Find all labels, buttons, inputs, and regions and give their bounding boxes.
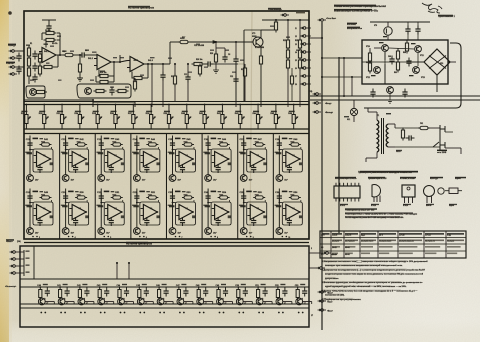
svg-text:К73-17: К73-17 [340, 205, 345, 207]
table header smudge [379, 233, 396, 235]
svg-text:VT11: VT11 [420, 55, 424, 57]
stage link wire [283, 301, 292, 303]
capacitor feedback cell 10 [73, 217, 78, 226]
svg-text:17: 17 [311, 315, 313, 317]
cell output dot [192, 158, 194, 160]
table smudge row2 [345, 240, 358, 242]
svg-text:выпрямителя: выпрямителя [347, 28, 363, 30]
capacitor C6 [79, 52, 88, 57]
capacitor C8 [222, 54, 227, 63]
table column line [343, 231, 345, 258]
svg-text:VT12: VT12 [366, 77, 370, 79]
stage link wire [125, 301, 134, 303]
capacitor feedback cell 6 [216, 164, 221, 173]
capacitor C2 [16, 66, 21, 75]
capacitor series cell 11 [99, 193, 104, 202]
wire feed bus b [93, 101, 135, 103]
svg-text:Приложение 1: Приложение 1 [438, 15, 455, 18]
capacitor series cell 10 [63, 193, 68, 202]
pot label smudge [253, 111, 259, 112]
transistor VT21 [58, 298, 65, 305]
stage link wire [263, 301, 272, 303]
op-amp DA1.2 [94, 55, 111, 70]
capacitor C56 [415, 26, 420, 35]
sheet fold line right [338, 57, 340, 233]
cell label smudge a [175, 138, 181, 140]
transistor cell 3 [98, 175, 105, 182]
caption smudge 4 [426, 204, 434, 205]
cell output dot [50, 158, 52, 160]
transistor cell 9 [27, 228, 34, 235]
cell label smudge a [211, 191, 217, 193]
cell output dot [228, 211, 230, 213]
cell label smudge b [218, 138, 222, 139]
svg-text:VT: VT [126, 303, 128, 305]
cell label smudge a [282, 191, 288, 193]
cell output dot [192, 211, 194, 213]
cell input resistor blob [205, 152, 211, 154]
cell label smudge c [183, 141, 187, 142]
layout note smudge [345, 208, 377, 210]
ground symbol [77, 78, 83, 81]
pot row link line [24, 128, 309, 130]
capacitor series cell 2 [63, 140, 68, 149]
svg-text:«Лин»: «Лин» [327, 302, 332, 304]
stage label smudge [162, 284, 167, 285]
wire junction to loop [137, 202, 140, 204]
wire DA1.1 noninverting input [39, 58, 42, 60]
wire to arrow [190, 41, 213, 43]
wire oval to loop [51, 147, 53, 149]
connector X5 pin 8 [300, 83, 309, 86]
svg-text:Пт. R2 видом Н2 (типы ВлТ С25: Пт. R2 видом Н2 (типы ВлТ С25 заглушка) … [345, 216, 404, 219]
capacitor feedback cell 5 [180, 164, 185, 173]
cell value smudge d [275, 205, 279, 206]
label smudge 220V [437, 150, 447, 152]
cell input resistor blob [276, 152, 282, 154]
resistor R64 [405, 41, 408, 54]
resistor stage 1 [39, 287, 42, 300]
table smudge row4 [425, 253, 436, 255]
svg-text:40: 40 [47, 116, 49, 119]
transistor cell 12 [133, 228, 140, 235]
cell junction dot [29, 202, 31, 204]
connector SA mains [318, 19, 327, 22]
wire box to fold [339, 57, 362, 59]
ink blot top left [8, 11, 12, 15]
table header smudge [345, 233, 358, 235]
transistor cell 2 [62, 175, 69, 182]
cell junction dot [29, 149, 31, 151]
capacitor stage 7 [164, 288, 169, 297]
table smudge row3 [345, 246, 355, 248]
feedback loop cell 12 [140, 202, 160, 225]
wire down to rail [384, 64, 386, 84]
cell label smudge b [253, 191, 257, 192]
svg-text:R63: R63 [394, 72, 397, 74]
cell left rail wire [29, 136, 31, 175]
connector X3 [323, 252, 332, 255]
resistor R25 [298, 38, 301, 51]
wire into DA1.3 [120, 61, 127, 63]
capacitor C13 [233, 76, 238, 85]
capacitor series cell 9 [27, 193, 32, 202]
op-amp DA1.3 [127, 57, 144, 72]
table header smudge [332, 233, 342, 235]
A2 stage 5 [119, 286, 121, 288]
capacitor series cell 15 [241, 193, 246, 202]
resistor MLT cell 8 [289, 143, 301, 146]
capacitor feedback cell 8 [287, 164, 292, 173]
capacitor C10 [160, 72, 165, 81]
svg-text:VT13: VT13 [421, 77, 425, 79]
mains switch SA3 [433, 142, 439, 147]
resistor MLT cell 3 [111, 143, 123, 146]
cell output dot [156, 158, 158, 160]
svg-text:05-08: 05-08 [345, 254, 350, 256]
A2 pin label 4 [26, 272, 30, 273]
stage label smudge [122, 284, 127, 285]
stage link wire [204, 301, 213, 303]
note underline smudge [322, 290, 401, 291]
capacitor series cell 6 [206, 140, 211, 149]
cell output blob [192, 162, 195, 165]
svg-text:10к*: 10к* [142, 180, 146, 182]
lamp wire down [353, 116, 355, 122]
feedback loop cell 14 [211, 202, 231, 225]
cell junction dot [278, 202, 280, 204]
A2 stage 8 [178, 286, 180, 288]
A3 power supply box [362, 40, 448, 84]
op-amp band cell 13 [176, 205, 193, 220]
mains wire lower [395, 146, 440, 148]
svg-text:Примерное расположение выводов: Примерное расположение выводов элементов [358, 172, 412, 174]
wire oval to loop [264, 200, 266, 202]
wire switch to fold [322, 57, 339, 59]
A2 inner bottom line [20, 307, 309, 309]
cell left rail wire [100, 136, 102, 175]
svg-text:C5 220: C5 220 [45, 30, 51, 32]
svg-text:эквалайзера «Электроника Э-08: эквалайзера «Электроника Э-08» [334, 8, 379, 12]
cell left rail wire [207, 189, 209, 228]
wire drop x163 [162, 80, 164, 107]
cell input resistor blob [169, 205, 175, 207]
capacitor series cell 3 [99, 140, 104, 149]
svg-text:10к*: 10к* [177, 180, 181, 182]
wire oval to loop [86, 200, 88, 202]
svg-text:C60: C60 [388, 56, 391, 58]
switch loop SA2 [77, 84, 131, 98]
svg-text:4в 8: 4в 8 [379, 234, 383, 237]
cell label smudge c [148, 194, 152, 195]
wire collector link left [244, 29, 261, 31]
potentiometer R33 slider [60, 111, 66, 127]
resistor MLT cell 15 [253, 196, 265, 199]
loudness switch loop SA1 [26, 86, 45, 98]
svg-text:VT: VT [86, 303, 88, 305]
wire oval to loop [193, 147, 195, 149]
capacitor C5 [46, 23, 51, 32]
mains wire upper [395, 127, 418, 129]
resistor R1 [27, 46, 30, 59]
capacitor stage 3 [84, 288, 89, 297]
wire junction to loop [137, 149, 140, 151]
pickup label smudge [6, 62, 15, 64]
pot label smudge [57, 111, 63, 112]
wire junction to loop [30, 149, 33, 151]
svg-text:17: 17 [295, 76, 297, 78]
cell output blob [121, 215, 124, 218]
wire oval to loop [193, 200, 195, 202]
svg-text:R12: R12 [133, 81, 136, 83]
wire oval to loop [122, 147, 124, 149]
svg-text:10к*: 10к* [35, 180, 39, 182]
res note smudge 1 [345, 212, 413, 213]
svg-text:10к*: 10к* [142, 233, 146, 235]
resistor R6 [44, 31, 57, 34]
feedback network DA1.3 [131, 72, 133, 79]
potentiometer R37 slider [132, 111, 138, 127]
resistor stage 10 [217, 287, 220, 300]
svg-text:VT: VT [66, 303, 68, 305]
svg-text:6: 6 [146, 237, 147, 239]
A2 stage 13 [277, 286, 279, 288]
svg-text:КТ315: КТ315 [371, 205, 376, 207]
wire C11 top [187, 64, 189, 74]
cell junction dot [100, 149, 102, 151]
svg-text:C13: C13 [230, 76, 233, 78]
cell value smudge d [25, 205, 29, 206]
cell left rail wire [136, 136, 138, 175]
ground symbol 2 [213, 70, 219, 73]
A2 stage 10 [218, 286, 220, 288]
resistor R19 [259, 54, 262, 67]
cell label smudge c [112, 194, 116, 195]
connector X5 pin 5 [300, 59, 309, 62]
capacitor C11 [185, 74, 190, 83]
table row line [320, 243, 466, 245]
capacitor stage 9 [203, 288, 208, 297]
A3 label smudge 1 [347, 23, 357, 25]
stage link wire [45, 301, 54, 303]
cell label smudge c [77, 194, 81, 195]
transistor VT33 [296, 298, 303, 305]
svg-text:15-25: 15-25 [332, 254, 337, 256]
svg-text:40: 40 [278, 116, 280, 119]
cell output dot [228, 158, 230, 160]
connector XP4 [318, 309, 327, 312]
vyh label smudge [6, 239, 14, 241]
connector X4 pin 1 [10, 251, 19, 254]
capacitor series cell 13 [170, 193, 175, 202]
capacitor stage 10 [223, 288, 228, 297]
resistor R62 [396, 49, 399, 62]
svg-text:R25: R25 [295, 40, 298, 42]
wire up to line amp [169, 42, 171, 64]
resistor R3 [27, 66, 30, 79]
svg-text:18: 18 [295, 84, 297, 86]
label smudge VT10 [379, 42, 384, 43]
wire drop x244 [243, 30, 245, 102]
svg-text:10: 10 [288, 237, 290, 239]
resistor MLT cell 9 [40, 196, 52, 199]
lineout smudge [268, 8, 281, 10]
resistor R5 [44, 38, 57, 41]
table column line [397, 231, 399, 258]
label smudge SET [396, 150, 402, 151]
cell output blob [228, 162, 231, 165]
potentiometer R36 slider [114, 111, 120, 127]
stage label smudge [261, 284, 266, 285]
A2 stage 4 [99, 286, 101, 288]
cell input resistor blob [240, 205, 246, 207]
note underline smudge [325, 294, 343, 295]
cell junction dot [136, 149, 138, 151]
wire R20 top [215, 42, 217, 52]
cell value smudge d [132, 152, 136, 153]
wire R18 top [275, 19, 277, 20]
wire stub into A2 a [116, 262, 118, 279]
A2 stage 14 [297, 286, 299, 288]
transistor VT11 [415, 46, 422, 53]
wire junction to loop [279, 202, 282, 204]
table row line [320, 250, 466, 252]
cell value smudge d [239, 152, 243, 153]
cell label smudge c [219, 194, 223, 195]
svg-text:«Вход»: «Вход» [8, 45, 17, 47]
transistor VT23 [98, 298, 105, 305]
component value label smudges top-left [26, 45, 30, 46]
table smudge row4 [332, 253, 338, 255]
pinout title smudge 1 [360, 171, 418, 173]
resistor mains R70 [401, 128, 404, 141]
resistor R29 [192, 62, 205, 65]
wire oval to loop [157, 200, 159, 202]
svg-text:положение 21 (29).: положение 21 (29). [325, 295, 345, 297]
caption smudge 5 [449, 204, 457, 205]
svg-text:Конденсаторы К73-17в: Конденсаторы К73-17в [335, 178, 357, 180]
caption smudge 3 [403, 204, 411, 205]
capacitor C57 [370, 89, 375, 98]
cell label smudge c [255, 141, 259, 142]
wire junction to loop [101, 202, 104, 204]
wire A2 out 2 [309, 267, 318, 269]
table header smudge [399, 233, 422, 235]
title smudge 2 [334, 9, 372, 11]
diode pinout icon [449, 188, 458, 194]
svg-text:R22: R22 [283, 40, 286, 42]
svg-text:С70-17: С70-17 [425, 235, 431, 237]
resistor stage 12 [257, 287, 260, 300]
resistor R27 [298, 58, 301, 71]
wire C13 top [235, 64, 237, 76]
svg-text:R17: R17 [182, 37, 185, 39]
potentiometer R39 slider [167, 111, 173, 127]
svg-text:VT9: VT9 [374, 25, 377, 27]
T1 secondary winding [386, 124, 388, 147]
A2 title smudge [126, 242, 148, 244]
cell label smudge a [246, 191, 252, 193]
svg-text:«Вых»: «Вых» [6, 241, 14, 243]
hdr smudge 1 [335, 177, 356, 179]
capacitor feedback cell 3 [109, 164, 114, 173]
cell output dot [156, 211, 158, 213]
capacitor C60 [389, 56, 394, 65]
svg-text:Схема электрическая принципиал: Схема электрическая принципиальная [334, 4, 386, 8]
connector X4 pin 2 [10, 258, 19, 261]
stage label smudge [241, 284, 246, 285]
svg-text:VT: VT [225, 303, 227, 305]
wire R13 top [134, 78, 136, 81]
resistor R9 [78, 62, 81, 75]
transistor VT29 [217, 298, 224, 305]
table column line [377, 231, 379, 258]
resistor MLT cell 1 [40, 143, 52, 146]
svg-text:R28: R28 [171, 76, 174, 78]
stage label smudge [43, 284, 48, 285]
table row line [320, 237, 466, 239]
transistor cell 16 [276, 228, 283, 235]
mains rail lower [310, 99, 480, 101]
cell input resistor blob [98, 152, 104, 154]
wire DA1.3 input b [127, 67, 130, 69]
transistor VT10 [382, 45, 389, 52]
resistor stage 14 [296, 287, 299, 300]
wire oval to loop [229, 147, 231, 149]
wire oval to loop [157, 147, 159, 149]
pot label smudge [146, 111, 152, 112]
pot label smudge [93, 111, 99, 112]
svg-text:12: 12 [295, 36, 297, 38]
svg-text:10к*: 10к* [71, 180, 75, 182]
svg-text:40: 40 [189, 116, 191, 119]
transistor cell 15 [240, 228, 247, 235]
resistor R23 [286, 48, 289, 61]
wire +supply rail top [262, 19, 309, 21]
A2 lower rail [20, 303, 309, 305]
wire A2 out [309, 252, 323, 254]
wire drop x352 [351, 77, 353, 96]
resistor stage 5 [118, 287, 121, 300]
cell divider line 7 [272, 134, 274, 240]
resistor MLT cell 4 [146, 143, 158, 146]
capacitor pinout icon [424, 186, 435, 197]
svg-text:10к*: 10к* [249, 180, 253, 182]
wire junction to loop [66, 202, 69, 204]
wire feed bus a [24, 99, 93, 101]
capacitor series cell 4 [134, 140, 139, 149]
wire VT9 to box [387, 35, 389, 40]
cell left rail wire [29, 189, 31, 228]
stage link wire [105, 301, 114, 303]
svg-text:КТ814Б, КТ815Б: КТ814Б, КТ815Б [400, 177, 415, 180]
cell left rail wire [243, 189, 245, 228]
table header smudge [425, 233, 444, 235]
wire junction to loop [244, 149, 247, 151]
capacitor feedback cell 16 [287, 217, 292, 226]
svg-text:2: 2 [311, 248, 312, 250]
cell value smudge d [61, 152, 65, 153]
svg-text:HL1: HL1 [347, 119, 350, 121]
wire VT10 down [384, 52, 386, 84]
cell output blob [156, 162, 159, 165]
svg-text:10к*: 10к* [213, 233, 217, 235]
svg-text:15: 15 [295, 60, 297, 62]
resistor MLT cell 6 [218, 143, 230, 146]
feedback network DA1.2 [98, 70, 100, 77]
cell divider line 5 [201, 134, 203, 240]
capacitor series cell 8 [277, 140, 282, 149]
